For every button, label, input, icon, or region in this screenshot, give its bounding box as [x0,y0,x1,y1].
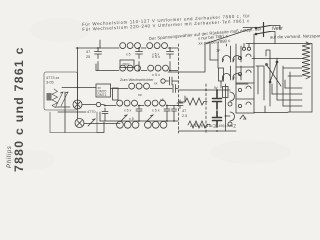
svg-text:x 5 x: x 5 x [124,109,131,113]
svg-text:Netz: Netz [272,26,283,32]
svg-text:4770: 4770 [87,110,95,114]
svg-text:x 5 x: x 5 x [152,55,160,59]
svg-text:7F: 7F [216,49,221,53]
svg-text:x5: x5 [160,98,164,102]
svg-text:Zweiter Empfänger: Zweiter Empfänger [189,124,236,129]
svg-text:7880 c und 7861 c: 7880 c und 7861 c [12,46,26,172]
svg-text:xx: xx [138,93,142,97]
svg-text:W: W [214,86,218,90]
svg-text:Zum Wechselrichter: Zum Wechselrichter [120,78,154,82]
svg-text:47: 47 [86,50,90,54]
svg-text:DBz: DBz [123,63,130,67]
svg-text:xx: xx [154,82,158,86]
svg-text:3-05: 3-05 [46,81,54,85]
svg-text:A: A [243,116,246,121]
svg-text:x 5: x 5 [126,53,131,57]
svg-text:4773 xx: 4773 xx [46,76,59,80]
svg-text:47: 47 [182,109,186,113]
svg-text:x 5: x 5 [129,117,134,121]
svg-text:DM71: DM71 [98,93,107,97]
svg-text:2.5: 2.5 [182,114,187,118]
svg-text:x 5 x: x 5 x [152,109,160,113]
svg-text:25: 25 [86,55,90,59]
svg-text:x 5 x: x 5 x [152,73,160,77]
